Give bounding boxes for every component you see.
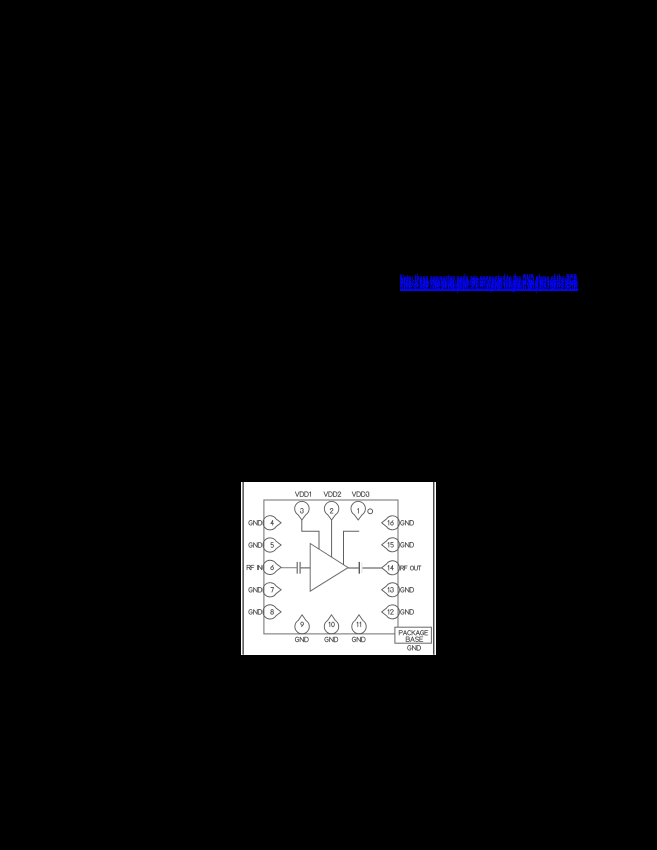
pin 2 <box>324 501 338 520</box>
capacitor C2 plate 1 <box>358 562 360 574</box>
wire VDD3 stub near pin1 <box>343 531 359 565</box>
pin 13 <box>381 583 399 597</box>
figure: QFN pinout diagram on white background <box>241 482 436 655</box>
wire capacitor C2 to RF OUT pin14 <box>362 567 381 569</box>
amplifier triangle U1 <box>310 543 348 591</box>
pin 1 indicator circle <box>367 509 372 514</box>
label GND bottom <box>352 637 365 642</box>
pin 10 <box>324 615 338 634</box>
pin 14 <box>381 561 399 575</box>
pin 16 <box>381 516 399 530</box>
package base box <box>395 627 431 643</box>
label GND left y590 <box>248 587 261 592</box>
wire amp output to capacitor C2 <box>348 567 358 569</box>
label VDD3 <box>352 492 369 497</box>
pin 3 <box>294 501 308 520</box>
label GND left y612 <box>248 610 261 615</box>
wire VDD2 pin2 to amp <box>330 520 332 557</box>
label GND right y590 <box>400 587 413 592</box>
pin 6 <box>263 560 281 574</box>
capacitor C1 plate 1 <box>296 562 298 574</box>
pin 5 <box>263 538 281 552</box>
label GND left y545 <box>248 543 261 548</box>
label GND bottom <box>295 637 308 642</box>
pin 7 <box>263 583 281 597</box>
pin 8 <box>263 605 281 619</box>
wire RF IN pin6 to capacitor C1 <box>281 567 297 569</box>
pin 9 <box>295 615 309 634</box>
pin 1 <box>351 501 365 520</box>
label RF IN left y567 <box>247 565 262 569</box>
label VDD1 <box>295 492 310 497</box>
pin 12 <box>381 605 399 619</box>
wire VDD1 pin3 to amp <box>301 520 318 549</box>
pin 4 <box>263 516 281 530</box>
label GND right y545 <box>400 542 413 547</box>
label GND under package base box <box>407 645 420 650</box>
pin 11 <box>351 615 365 634</box>
capacitor C2 plate 2 (faint) <box>361 562 363 573</box>
wire capacitor C1 to amp input <box>300 567 309 569</box>
label GND left y523 <box>248 520 261 525</box>
chip package outline <box>264 500 398 634</box>
figure frame right line <box>432 482 434 655</box>
label VDD2 <box>324 492 341 497</box>
label GND right y523 <box>400 520 413 525</box>
capacitor C1 plate 2 <box>299 562 301 574</box>
label RF OUT right y568 <box>400 566 420 570</box>
figure frame left line <box>242 482 244 655</box>
label GND bottom <box>324 637 337 642</box>
label GND right y612 <box>400 610 413 615</box>
pin 15 <box>381 538 399 552</box>
hyperlink (condensed overlapping blue text) <box>400 271 579 293</box>
